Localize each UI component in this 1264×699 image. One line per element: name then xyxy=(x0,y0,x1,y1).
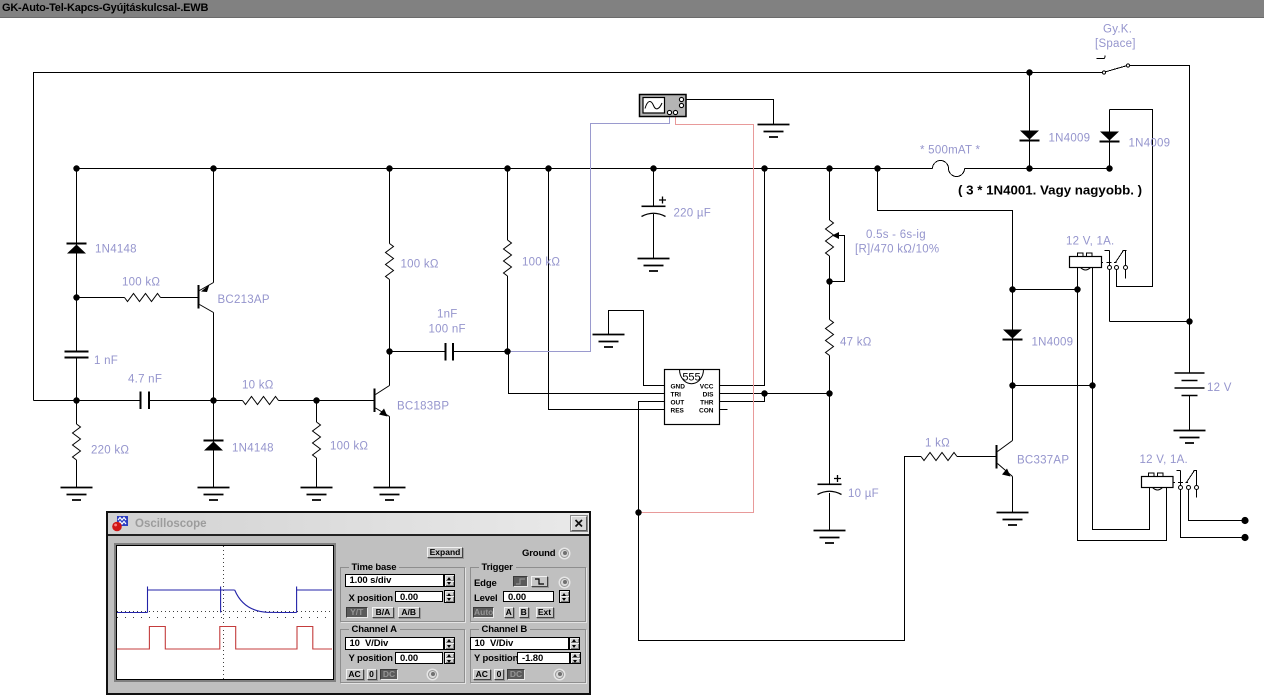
svg-text:* 500mAT *: * 500mAT * xyxy=(920,145,981,157)
svg-text:1N4009: 1N4009 xyxy=(1129,138,1171,150)
svg-text:CON: CON xyxy=(699,408,714,415)
svg-text:555: 555 xyxy=(682,372,700,384)
svg-text:( 3 * 1N4001. Vagy nagyobb. ): ( 3 * 1N4001. Vagy nagyobb. ) xyxy=(958,183,1142,198)
svg-text:47 kΩ: 47 kΩ xyxy=(840,337,872,349)
svg-text:[Space]: [Space] xyxy=(1095,38,1136,50)
svg-text:1N4148: 1N4148 xyxy=(95,244,137,256)
svg-text:100 kΩ: 100 kΩ xyxy=(330,441,368,453)
svg-text:12 V: 12 V xyxy=(1207,382,1232,394)
svg-text:1N4148: 1N4148 xyxy=(232,443,274,455)
svg-text:220 µF: 220 µF xyxy=(674,208,712,220)
svg-text:1N4009: 1N4009 xyxy=(1032,337,1074,349)
svg-text:THR: THR xyxy=(700,400,714,407)
svg-text:1 kΩ: 1 kΩ xyxy=(925,438,950,450)
svg-text:1N4009: 1N4009 xyxy=(1049,133,1091,145)
svg-text:[R]/470 kΩ/10%: [R]/470 kΩ/10% xyxy=(855,244,939,256)
svg-text:1 nF: 1 nF xyxy=(94,355,118,367)
svg-text:OUT: OUT xyxy=(671,400,685,407)
svg-text:TRI: TRI xyxy=(671,392,682,399)
svg-text:100 kΩ: 100 kΩ xyxy=(401,259,439,271)
svg-text:RES: RES xyxy=(671,408,685,415)
svg-text:10 kΩ: 10 kΩ xyxy=(242,380,274,392)
svg-text:Gy.K.: Gy.K. xyxy=(1103,24,1132,36)
svg-text:BC213AP: BC213AP xyxy=(218,294,270,306)
svg-text:0.5s - 6s-ig: 0.5s - 6s-ig xyxy=(866,229,926,241)
svg-text:12 V, 1A.: 12 V, 1A. xyxy=(1140,454,1189,466)
svg-text:BC337AP: BC337AP xyxy=(1017,455,1069,467)
svg-text:DIS: DIS xyxy=(703,392,715,399)
svg-text:1nF: 1nF xyxy=(437,309,458,321)
svg-text:12 V, 1A.: 12 V, 1A. xyxy=(1066,236,1115,248)
svg-text:BC183BP: BC183BP xyxy=(397,401,449,413)
svg-text:4.7 nF: 4.7 nF xyxy=(128,374,162,386)
svg-text:220 kΩ: 220 kΩ xyxy=(91,445,129,457)
svg-text:10 µF: 10 µF xyxy=(848,488,879,500)
svg-text:100 nF: 100 nF xyxy=(429,324,466,336)
svg-text:GND: GND xyxy=(671,384,686,391)
svg-text:VCC: VCC xyxy=(700,384,714,391)
svg-text:100 kΩ: 100 kΩ xyxy=(122,277,160,289)
svg-text:100 kΩ: 100 kΩ xyxy=(522,257,560,269)
